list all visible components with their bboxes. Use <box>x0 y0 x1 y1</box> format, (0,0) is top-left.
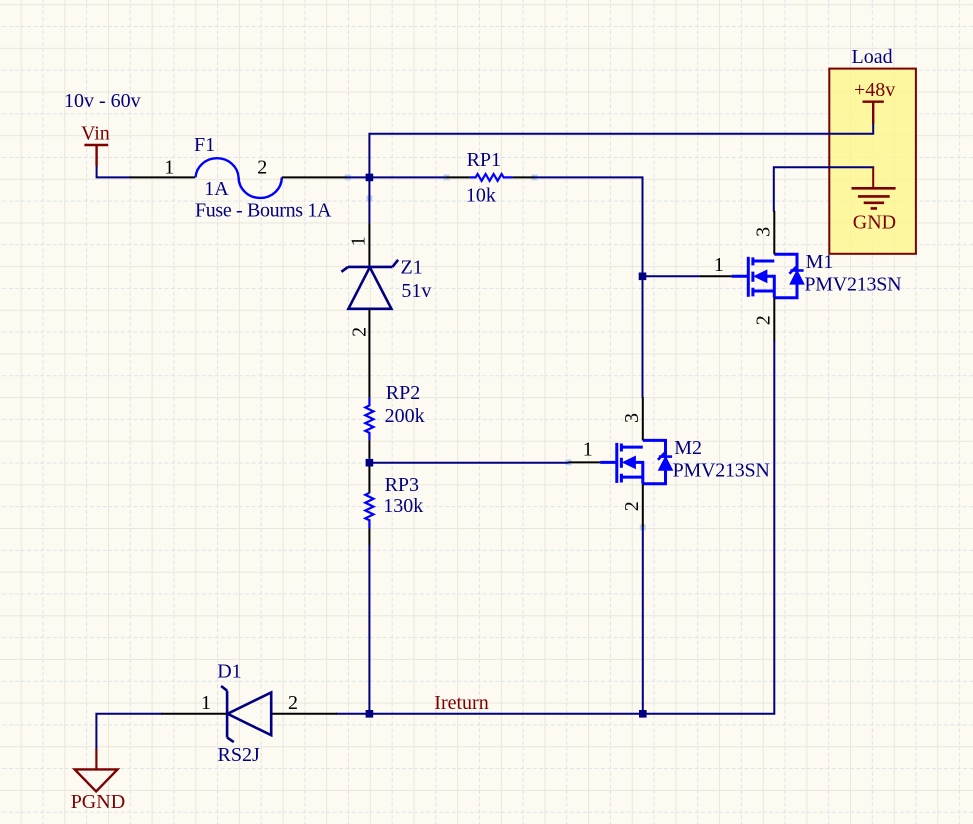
fuse F1 pin 2 <box>282 176 347 178</box>
svg-text:1A: 1A <box>204 178 229 200</box>
svg-text:2: 2 <box>288 692 298 714</box>
resistor RP2 <box>365 398 373 441</box>
wire GND to M1 drain <box>774 167 873 211</box>
Load box (yellow rectangle) <box>829 69 916 254</box>
svg-text:F1: F1 <box>194 134 215 156</box>
svg-text:RS2J: RS2J <box>218 744 260 766</box>
svg-text:D1: D1 <box>217 661 241 683</box>
svg-text:10v - 60v: 10v - 60v <box>64 90 141 112</box>
MOSFET M2 <box>569 397 673 527</box>
connection markers <box>345 174 646 530</box>
RP2 pin 2 <box>368 440 370 458</box>
svg-text:+48v: +48v <box>854 79 895 101</box>
svg-text:200k: 200k <box>385 405 425 427</box>
wire to M1 gate <box>643 275 701 277</box>
power port PGND <box>95 749 97 770</box>
svg-text:2: 2 <box>257 156 267 178</box>
wire at divider junction <box>368 458 370 466</box>
M1 drain pin 3 <box>773 211 775 255</box>
wire junction to Z1 <box>368 177 370 223</box>
wire M1 source down to rail and return rail <box>337 341 774 714</box>
svg-text:3: 3 <box>752 227 774 237</box>
svg-text:Load: Load <box>852 46 893 68</box>
junction divider <box>366 459 374 467</box>
resistor RP1 pin 2 <box>513 176 535 178</box>
svg-text:1: 1 <box>714 254 724 276</box>
wire D1 to PGND <box>96 714 161 749</box>
svg-text:Vin: Vin <box>81 123 110 145</box>
M2 drain pin 3 <box>642 397 644 441</box>
RP3 pin 1 <box>368 467 370 493</box>
wire Vin to fuse <box>97 166 130 177</box>
svg-text:1: 1 <box>201 692 211 714</box>
M2 source pin 2 <box>642 484 644 528</box>
wire fuse to RP1 <box>347 176 445 178</box>
M1 body <box>732 254 797 297</box>
wire M2 source to rail <box>642 527 644 714</box>
svg-text:3: 3 <box>621 413 643 423</box>
fuse F1 <box>196 158 282 198</box>
resistor RP1 <box>470 174 513 181</box>
junction at fuse/RP1/zener <box>366 174 374 182</box>
svg-text:51v: 51v <box>401 280 431 302</box>
svg-text:Fuse - Bourns 1A: Fuse - Bourns 1A <box>195 199 332 221</box>
svg-text:130k: 130k <box>383 495 423 517</box>
zener Z1 <box>341 260 398 309</box>
M2 arrow <box>623 456 636 468</box>
svg-text:M2: M2 <box>674 437 702 459</box>
wire RP3 to return rail <box>368 545 370 714</box>
wire divider to M2 gate <box>369 462 568 464</box>
diode D1 pin 2 <box>272 713 337 715</box>
svg-text:1: 1 <box>164 156 174 178</box>
M1 gate pin <box>700 275 732 277</box>
wire RP1 to M2 drain (vertical) <box>535 177 643 397</box>
resistor RP3 <box>365 493 373 528</box>
svg-text:Z1: Z1 <box>401 257 423 279</box>
svg-text:2: 2 <box>621 501 643 511</box>
svg-text:1: 1 <box>347 236 369 246</box>
power port Vin <box>84 145 108 166</box>
svg-text:1: 1 <box>583 438 593 460</box>
M2 body <box>600 440 665 483</box>
M1 body diode <box>790 269 803 272</box>
MOSFET M1 <box>700 211 804 341</box>
svg-text:2: 2 <box>349 327 371 337</box>
wire top rail to +48v <box>369 123 873 177</box>
svg-text:M1: M1 <box>806 251 834 273</box>
Z1 pin 2 / RP2 pin 1 <box>368 309 370 398</box>
svg-text:2: 2 <box>753 315 775 325</box>
svg-text:Ireturn: Ireturn <box>434 692 488 714</box>
svg-text:PMV213SN: PMV213SN <box>673 459 770 481</box>
junction at M1 gate branch <box>639 273 647 281</box>
svg-text:10k: 10k <box>466 184 496 206</box>
fuse F1 pin 1 <box>130 176 195 178</box>
M1 arrow <box>754 270 767 282</box>
svg-text:PMV213SN: PMV213SN <box>804 274 901 296</box>
resistor RP1 pin 1 <box>445 176 470 178</box>
RP3 pin 2 <box>368 528 370 545</box>
svg-text:RP3: RP3 <box>385 474 419 496</box>
svg-text:GND: GND <box>853 211 896 233</box>
svg-text:PGND: PGND <box>71 791 125 813</box>
D1 pin 1 <box>161 713 226 715</box>
M1 source pin 2 <box>773 298 775 342</box>
zener Z1 pin 1 <box>368 223 370 267</box>
junction divider chain at rail <box>366 710 374 718</box>
svg-text:RP2: RP2 <box>386 382 420 404</box>
power port +48v <box>863 102 884 124</box>
M2 gate pin <box>569 461 601 463</box>
junction M2 source at rail <box>639 710 647 718</box>
diode D1 <box>221 686 271 742</box>
M2 body diode <box>659 455 672 458</box>
svg-text:RP1: RP1 <box>467 149 501 171</box>
power ground GND <box>872 167 874 188</box>
